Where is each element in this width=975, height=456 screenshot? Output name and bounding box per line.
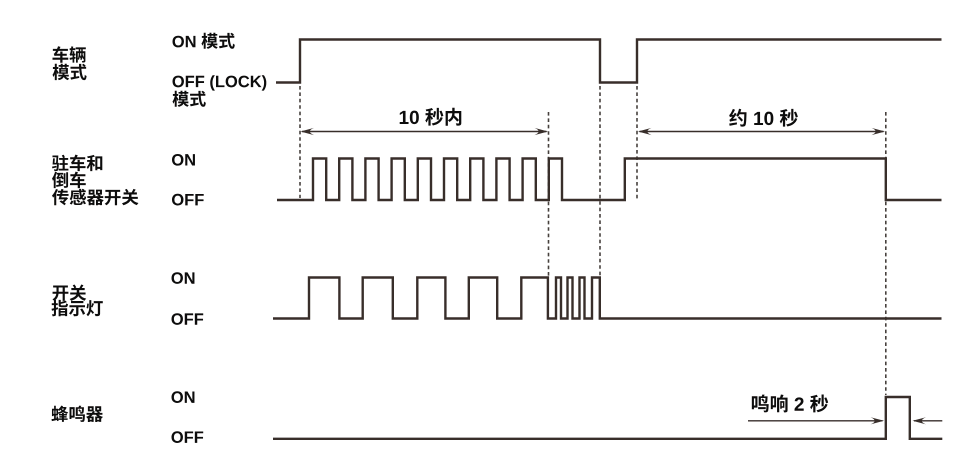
level label: OFF row3 <box>172 313 204 325</box>
level label: ON row4 <box>172 391 195 403</box>
level label: OFF row4 <box>172 431 204 443</box>
level label: OFF mo-shi line2 <box>173 91 206 107</box>
annotation text: 10 miao nei (within 10 s) <box>400 108 462 126</box>
dashed guide at buzzer start x=885.8 <box>885 112 887 395</box>
double arrow: 10 s window <box>302 131 547 133</box>
label: sensor line3 (chuan-gan-qi-kai-guan) <box>52 189 138 206</box>
waveform: buzzer signal <box>273 397 942 439</box>
level label: ON row2 <box>172 154 195 166</box>
double arrow: about 10 s window <box>640 131 884 133</box>
level label: ON row3 <box>172 272 195 284</box>
label: buzzer (feng-ming-qi) <box>52 406 103 422</box>
level label: OFF row2 <box>172 194 204 206</box>
label: indicator line2 (zhi-shi-deng) <box>52 300 103 316</box>
arrow: 2 s pulse right pointer <box>914 420 942 422</box>
level label: ON mo-shi <box>173 33 235 49</box>
dashed guide at 10s window end x=548.5 <box>548 112 550 276</box>
label: vehicle-mode line1 (che-liang) <box>53 46 86 63</box>
waveform: switch indicator lamp signal <box>273 278 942 319</box>
annotation text: yue 10 miao (about 10 s) <box>729 109 798 127</box>
annotation text: ming-xiang 2 miao (sound 2 s) <box>752 395 828 413</box>
label: sensor line2 (dao-che) <box>52 172 86 189</box>
waveform: parking/reverse sensor switch signal <box>277 159 942 201</box>
dashed guide at vehicle OFF edge x=600 <box>599 86 601 276</box>
level label: OFF (LOCK) <box>173 75 267 90</box>
arrow: 2 s pulse left pointer <box>748 420 883 422</box>
dashed guide at first ON edge x=300 <box>299 86 301 198</box>
waveform: vehicle mode signal <box>276 40 942 83</box>
label: sensor line1 (zhu-che-he) <box>52 155 102 172</box>
dashed guide at vehicle re-ON edge x=637 <box>636 86 638 201</box>
label: vehicle-mode line2 (mo-shi) <box>53 64 87 80</box>
label: indicator line1 (kai-guan) <box>53 285 87 301</box>
